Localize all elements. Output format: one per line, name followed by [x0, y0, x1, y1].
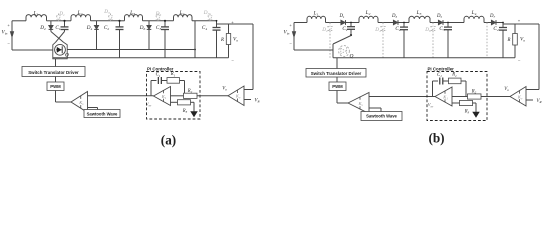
capacitor C1 (b) — [350, 23, 352, 27]
diode D2 dashed (b) — [329, 23, 331, 27]
svg-text:C1: C1 — [437, 73, 442, 78]
inductor L1 (b) — [307, 16, 326, 22]
diode D4 dashed (b) — [382, 23, 384, 27]
error amplifier (a) — [228, 86, 244, 106]
svg-text:PI Controller: PI Controller — [428, 66, 455, 71]
svg-text:C1: C1 — [156, 73, 161, 78]
wire L4 output drop (a) — [194, 21, 196, 58]
PI controller dashed box (a) — [147, 72, 201, 120]
diode D6 (a) — [148, 21, 150, 26]
wire ground rail (b) — [333, 57, 515, 59]
svg-text:Sawtooth Wave: Sawtooth Wave — [87, 111, 118, 116]
op-amp U1 (a) — [154, 87, 171, 106]
svg-text:R: R — [507, 38, 511, 43]
capacitor C2 (b) — [403, 23, 405, 28]
wire rail Vin to switch (a) — [12, 49, 53, 51]
capacitor C3 (a) — [164, 21, 166, 27]
feedback capacitor C1 PI (b) — [432, 81, 434, 96]
transistor Q dashed (b) — [339, 46, 350, 57]
svg-text:R: R — [220, 38, 224, 43]
reference input VR (b) — [526, 99, 533, 101]
diode D1 dashed (a) — [58, 14, 60, 16]
switch translator driver box (a) — [55, 59, 57, 67]
svg-text:−: − — [231, 58, 234, 63]
diode D3 (b) — [393, 22, 397, 24]
svg-text:PWM: PWM — [50, 84, 61, 89]
svg-text:R1: R1 — [170, 72, 176, 77]
svg-text:PWM: PWM — [332, 84, 343, 89]
wire rail Vin to switch (b) — [294, 49, 333, 51]
ground (a) — [191, 112, 197, 117]
svg-text:D5: D5 — [436, 14, 442, 19]
diode D5 dashed (a) — [157, 14, 159, 16]
sawtooth wave box (b) — [369, 107, 381, 109]
svg-text:D1: D1 — [338, 14, 344, 19]
svg-text:−: − — [7, 41, 10, 46]
svg-text:D3: D3 — [391, 14, 397, 19]
svg-text:R3: R3 — [182, 109, 188, 114]
inductor L2 (b) — [359, 16, 378, 22]
svg-text:VR: VR — [537, 99, 542, 104]
wire PI output Ver to comparator (b) — [369, 96, 435, 98]
load loop with resistor R and output Vo (b) — [503, 23, 515, 25]
capacitor C4 (a) — [216, 21, 218, 28]
reference input VR (a) — [244, 99, 251, 101]
voltage source Vin (a) — [11, 21, 13, 50]
inductor L1 (a) — [26, 15, 47, 21]
svg-text:D7: D7 — [489, 14, 495, 19]
svg-text:Switch Translator Driver: Switch Translator Driver — [28, 70, 79, 75]
inductor L2 (a) — [71, 15, 91, 21]
input resistor R2 (a) — [171, 95, 184, 97]
inductor L4 (b) — [464, 16, 484, 22]
dashed branch wire (b) — [486, 23, 488, 58]
wire top rail (a) — [12, 20, 26, 22]
sawtooth wave box (a) — [88, 107, 98, 109]
error amplifier (b) — [510, 87, 526, 107]
svg-text:−: − — [518, 58, 521, 63]
PI controller dashed box (b) — [427, 72, 487, 121]
switch translator driver box (b) — [336, 58, 338, 69]
voltage source Vin (b) — [293, 23, 295, 51]
svg-text:Switch Translator Driver: Switch Translator Driver — [311, 71, 362, 76]
svg-text:(a): (a) — [161, 133, 176, 148]
comparator (b) — [348, 93, 369, 114]
resistor R3 to ground (b) — [452, 102, 460, 104]
diode D7 dashed (a) — [209, 14, 211, 16]
capacitor C4 (b) — [502, 23, 504, 28]
feedback capacitor C1 PI (a) — [150, 81, 152, 96]
wire switch bypass diagonal (b) — [350, 33, 352, 36]
svg-text:R1: R1 — [451, 73, 457, 78]
diode D4 (a) — [96, 21, 98, 26]
load loop with resistor R and output Vo (a) — [217, 23, 229, 25]
op-amp U2 (b) — [435, 87, 452, 106]
svg-text:−: − — [289, 41, 292, 46]
svg-text:PI Controller: PI Controller — [147, 66, 174, 71]
diode D6 dashed (b) — [432, 23, 434, 27]
wire crossing X above switch (a) — [51, 32, 64, 43]
svg-text:R2: R2 — [471, 90, 477, 95]
svg-text:(b): (b) — [428, 131, 444, 146]
wire mid rail switch node (a) — [67, 49, 195, 51]
inductor L4 (a) — [174, 15, 193, 21]
capacitor C3 (b) — [447, 23, 449, 28]
svg-text:Vo: Vo — [504, 87, 509, 92]
feedback resistor R1 (b) — [449, 78, 462, 84]
transistor Q (a) — [53, 42, 67, 59]
ground (b) — [473, 112, 479, 117]
wire PI output Ver to comparator (a) — [88, 95, 154, 97]
resistor R3 to ground (a) — [171, 101, 178, 103]
diode D3 dashed (a) — [110, 14, 112, 16]
PWM box (b) — [336, 77, 338, 82]
diode D1 (b) — [341, 22, 345, 24]
diode D5 (b) — [438, 22, 442, 24]
diode D7 (b) — [491, 22, 495, 24]
wire PWM to comparator (b) — [336, 91, 338, 104]
svg-text:R2: R2 — [187, 89, 193, 94]
wire feedback Vo to error amp (b) — [515, 23, 539, 25]
wire PWM to comparator (a) — [55, 91, 57, 103]
wire top rail (b) — [294, 22, 307, 24]
capacitor C2 (a) — [119, 21, 121, 27]
comparator (a) — [71, 92, 88, 113]
diode D2 (a) — [50, 21, 52, 26]
PWM box (a) — [55, 77, 57, 83]
capacitor C1 (a) — [64, 21, 66, 27]
feedback resistor R1 (a) — [167, 78, 180, 84]
svg-text:Vo: Vo — [222, 87, 227, 92]
wire ground rail (a) — [53, 57, 229, 59]
svg-text:Sawtooth Wave: Sawtooth Wave — [366, 114, 397, 119]
svg-text:VR: VR — [255, 99, 260, 104]
inductor L3 (b) — [409, 16, 430, 22]
wire feedback Vo to error amp (a) — [229, 23, 254, 25]
svg-text:R3: R3 — [464, 110, 470, 115]
inductor L3 (a) — [125, 15, 143, 21]
input resistor R2 (b) — [452, 96, 468, 98]
svg-text:Q: Q — [350, 54, 354, 60]
